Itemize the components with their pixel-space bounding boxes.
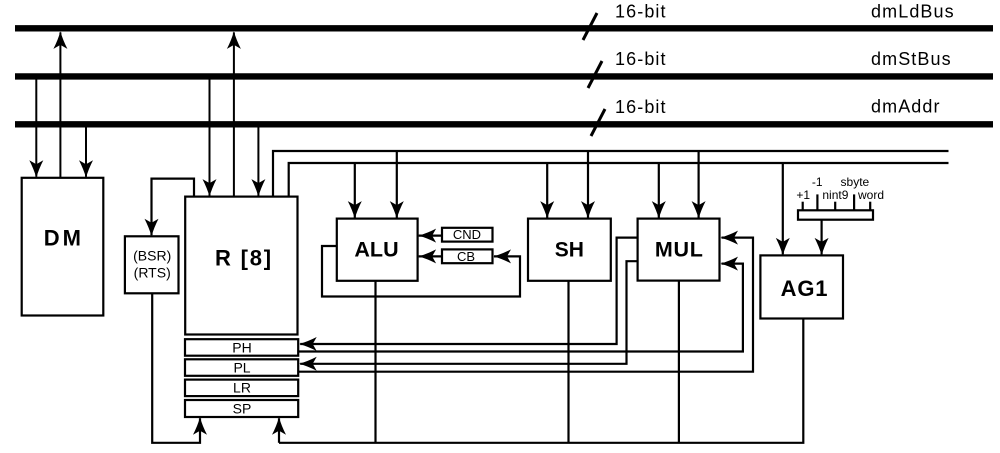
box DM (22, 178, 104, 316)
svg-text:dmStBus: dmStBus (871, 49, 952, 69)
wire ALU output down (374, 281, 376, 443)
svg-text:16-bit: 16-bit (615, 2, 667, 22)
bus-width slash (dmAddr) (591, 109, 605, 136)
selector tick sbyte (853, 194, 855, 210)
wire line2 to MUL (658, 163, 660, 218)
box CB (442, 249, 493, 263)
svg-text:MUL: MUL (655, 237, 704, 261)
wire MUL P-high to PH (300, 238, 637, 344)
wire R[8] to bus1 (233, 32, 235, 196)
arrowhead bottom bus into SP (272, 417, 286, 435)
box (BSR)(RTS) (125, 236, 179, 293)
svg-text:PH: PH (232, 339, 251, 355)
arrowhead R[8] to dmLdBus (227, 31, 241, 49)
register PL (185, 359, 298, 376)
arrowhead line2 into SH (540, 201, 554, 219)
wire PH output to MUL right (298, 264, 743, 352)
arrowhead loop into CB (494, 249, 512, 263)
wire MUL output down (678, 281, 680, 443)
arrowhead selector into AG1 (815, 238, 829, 256)
wire R[8] to (BSR)(RTS) (152, 179, 195, 236)
svg-text:SP: SP (233, 400, 252, 416)
wire feedback line 2 from R[8] top (289, 163, 949, 197)
arrowhead line2 into ALU (348, 201, 362, 219)
arrowhead into DM (addr) (79, 160, 93, 178)
wire line1 to SH (587, 151, 589, 218)
selector tick -1 (816, 194, 818, 210)
svg-text:dmLdBus: dmLdBus (871, 1, 955, 21)
bus dmAddr (15, 121, 993, 127)
wire (BSR)(RTS) to SP (152, 293, 200, 443)
wire PL output to MUL right (298, 238, 753, 372)
arrowhead line1 into SH (581, 201, 595, 219)
bus dmStBus (15, 73, 993, 79)
svg-text:SH: SH (555, 238, 584, 261)
svg-text:-1: -1 (812, 175, 823, 189)
arrowhead PL line into MUL right (721, 231, 739, 245)
svg-text:nint9: nint9 (822, 188, 848, 202)
wire feedback line 1 from R[8] top (273, 151, 949, 197)
wire line1 to ALU (396, 151, 398, 218)
wire bus2 to R[8] (209, 79, 211, 195)
selector tick word (869, 202, 871, 211)
arrowhead line2 into MUL (652, 201, 666, 219)
bus-width slash (dmLdBus) (583, 13, 597, 40)
arrowhead line2 into AG1 (776, 238, 790, 256)
arrowhead into PL (299, 357, 317, 371)
arrowhead BSR wire into SP (193, 417, 207, 435)
wire CND to ALU (419, 235, 442, 237)
box SH (528, 219, 611, 281)
arrowhead into R[8] from dmStBus (203, 179, 217, 197)
wire bus3 to DM (address) (85, 128, 87, 177)
svg-text:16-bit: 16-bit (615, 49, 667, 69)
svg-text:(BSR): (BSR) (133, 247, 171, 263)
box address mode selector (798, 210, 873, 219)
arrowhead line1 into ALU (390, 201, 404, 219)
wire DM to bus1 (load data) (59, 32, 61, 177)
wire bus2 to DM (store data) (35, 79, 37, 176)
svg-text:LR: LR (233, 380, 251, 396)
svg-text:16-bit: 16-bit (615, 97, 667, 117)
arrowhead into (BSR)(RTS) (145, 219, 159, 237)
box AG1 (760, 255, 843, 318)
svg-text:word: word (857, 188, 884, 202)
bus dmLdBus (15, 25, 993, 31)
box MUL (638, 219, 720, 281)
arrowhead DM to dmLdBus (53, 31, 67, 49)
wire line2 to SH (546, 163, 548, 218)
wire line1 to MUL (697, 151, 699, 218)
arrowhead into R[8] from dmAddr (251, 179, 265, 197)
wire line2 to ALU (354, 163, 356, 218)
bus-width slash (dmStBus) (588, 61, 602, 88)
box ALU (337, 219, 418, 281)
selector tick +1 (802, 202, 804, 211)
selector tick nint9 (834, 202, 836, 211)
register LR (185, 380, 298, 397)
register PH (185, 339, 298, 356)
svg-text:AG1: AG1 (781, 276, 829, 301)
svg-text:CB: CB (457, 249, 475, 264)
svg-text:PL: PL (233, 360, 250, 376)
svg-text:+1: +1 (796, 188, 810, 202)
box R[8] (185, 197, 297, 335)
arrowhead into PH (299, 337, 317, 351)
svg-text:ALU: ALU (354, 237, 398, 261)
wire MUL P-low to PL (300, 261, 637, 364)
wire line2 to AG1 (782, 163, 784, 254)
arrowhead PH line into MUL right (721, 257, 739, 271)
wire SH output down (567, 281, 569, 443)
svg-text:R [8]: R [8] (215, 245, 273, 270)
svg-text:dmAddr: dmAddr (871, 97, 941, 117)
register SP (185, 400, 298, 417)
wire CB to ALU (419, 255, 442, 257)
wire bottom bus to SP and from AG1 (279, 319, 803, 443)
svg-text:DM: DM (44, 225, 84, 250)
arrowhead into DM (store) (29, 160, 43, 178)
wire ALU output loop to CB (322, 246, 520, 297)
svg-text:(RTS): (RTS) (134, 265, 171, 281)
arrowhead line1 into MUL (692, 201, 706, 219)
arrowhead CB into ALU (419, 249, 437, 263)
arrowhead CND into ALU (419, 229, 437, 243)
box CND (442, 228, 493, 242)
wire bottom to SP arrow (278, 418, 280, 443)
svg-text:CND: CND (453, 227, 481, 242)
wire mode selector to AG1 (820, 220, 822, 255)
wire bus3 to R[8] (257, 128, 259, 196)
